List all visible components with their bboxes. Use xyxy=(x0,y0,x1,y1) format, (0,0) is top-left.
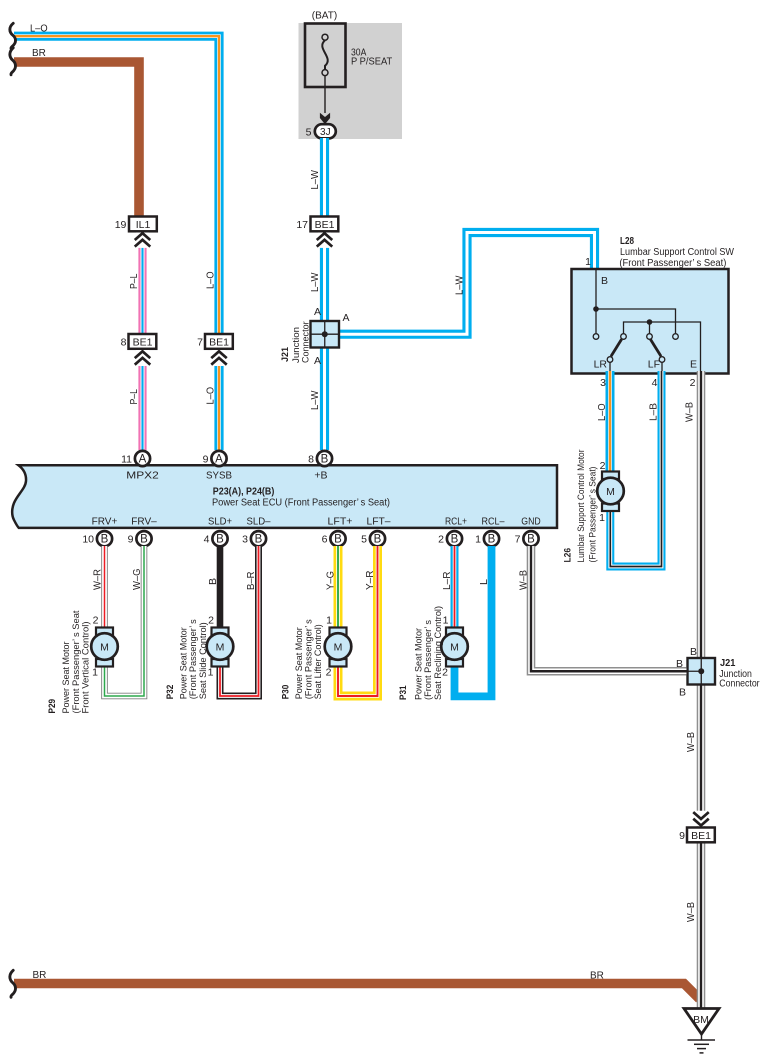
chevron below BE1-8 xyxy=(135,350,151,366)
svg-text:B: B xyxy=(374,534,382,546)
label W-G xyxy=(132,568,143,590)
fuse block gray background xyxy=(299,23,403,139)
label L-R xyxy=(442,572,453,591)
labels LR LF E xyxy=(594,359,697,371)
svg-text:A: A xyxy=(314,306,321,318)
label W-B on GND wire xyxy=(519,570,530,590)
svg-text:Seat Lifter Control): Seat Lifter Control) xyxy=(313,624,324,699)
svg-text:2: 2 xyxy=(600,460,606,472)
svg-text:L–O: L–O xyxy=(597,403,608,421)
svg-text:Front Vertical Control): Front Vertical Control) xyxy=(81,622,92,714)
svg-text:BE1: BE1 xyxy=(315,219,335,231)
ECU bottom pin names xyxy=(92,516,541,528)
pin 9 B FRV- xyxy=(128,531,152,546)
svg-text:L–W: L–W xyxy=(310,169,321,189)
svg-text:P–L: P–L xyxy=(129,389,140,405)
switch pivots and pin stubs xyxy=(607,357,665,373)
label L-O upper xyxy=(206,271,217,289)
wire Y-R LFT- looping to motor P30 xyxy=(338,546,378,696)
svg-text:L–O: L–O xyxy=(30,24,48,35)
label BR bottom left xyxy=(33,970,47,981)
svg-text:L–R: L–R xyxy=(442,572,453,591)
label L-W below BE1-17 xyxy=(310,272,321,292)
svg-text:Seat Reclining Control): Seat Reclining Control) xyxy=(433,606,444,700)
label P30 Power Seat Motor vertical xyxy=(281,619,325,699)
svg-text:B: B xyxy=(216,534,224,546)
label W-R xyxy=(93,569,104,590)
ECU top pin names xyxy=(126,470,327,482)
wire Y-G LFT+ to motor P30 xyxy=(334,546,343,628)
pin 5 B LFT- xyxy=(361,531,385,546)
svg-text:L–O: L–O xyxy=(206,387,217,405)
label L26 Lumbar Support Control Motor vertical xyxy=(563,450,599,563)
label pin 2 of P31 xyxy=(442,667,448,679)
svg-text:7: 7 xyxy=(515,534,521,546)
svg-text:+B: +B xyxy=(314,470,327,482)
L28 internal wiring xyxy=(593,270,700,373)
svg-text:5: 5 xyxy=(361,534,367,546)
svg-text:A: A xyxy=(314,355,321,367)
wire BR bottom horizontal xyxy=(14,984,700,1000)
svg-text:A: A xyxy=(139,453,147,465)
svg-text:2: 2 xyxy=(93,615,99,627)
svg-text:1: 1 xyxy=(92,667,98,679)
pin 8 B +B xyxy=(308,451,332,466)
wire BR top horizontal to IL1 xyxy=(14,62,139,216)
wire P-L from IL1 to MPX2 pin xyxy=(138,231,146,450)
svg-text:L–W: L–W xyxy=(310,272,321,292)
svg-text:BE1: BE1 xyxy=(691,830,711,842)
wire L-R RCL+ to motor P31 xyxy=(451,546,459,628)
svg-text:B: B xyxy=(321,453,329,465)
label pin 2 of P29 xyxy=(93,615,99,627)
svg-text:LFT+: LFT+ xyxy=(328,516,353,528)
svg-text:Lumbar Support Control Motor: Lumbar Support Control Motor xyxy=(576,450,587,563)
chevron below BE1-17 xyxy=(317,233,333,248)
svg-text:Y–G: Y–G xyxy=(325,571,336,590)
label pin 1 of P32 xyxy=(208,667,214,679)
svg-text:8: 8 xyxy=(308,454,314,466)
svg-text:W–G: W–G xyxy=(132,568,143,590)
svg-text:B–R: B–R xyxy=(246,572,257,591)
svg-text:17: 17 xyxy=(296,219,308,231)
label A right of J21 xyxy=(343,312,350,324)
svg-text:P32: P32 xyxy=(165,685,176,700)
svg-text:M: M xyxy=(334,642,343,654)
label P-L upper xyxy=(129,273,140,289)
motor L26 xyxy=(597,472,624,512)
svg-text:2: 2 xyxy=(326,667,332,679)
svg-text:M: M xyxy=(450,642,459,654)
svg-text:9: 9 xyxy=(128,534,134,546)
label B-R xyxy=(246,572,257,591)
wire L RCL- looping to motor P31 xyxy=(455,546,492,696)
label L-B xyxy=(649,403,660,421)
svg-text:B: B xyxy=(208,578,219,585)
svg-text:L28: L28 xyxy=(620,236,634,247)
label W-B lower right xyxy=(686,902,697,922)
svg-text:GND: GND xyxy=(521,516,541,528)
svg-text:SLD–: SLD– xyxy=(247,516,271,528)
switch L28 box xyxy=(572,269,729,374)
label B below J21-B xyxy=(679,687,686,699)
wire B-R SLD- looping to motor P32 xyxy=(220,546,259,696)
svg-text:P30: P30 xyxy=(281,685,292,700)
svg-text:19: 19 xyxy=(115,219,127,231)
motor P29 xyxy=(91,628,118,667)
chevron below BE1-7 xyxy=(211,350,227,366)
svg-text:1: 1 xyxy=(475,534,481,546)
label A below J21 xyxy=(314,355,321,367)
wire W-R FRV+ to motor P29 xyxy=(101,546,108,628)
label L-O xyxy=(597,403,608,421)
svg-text:L–W: L–W xyxy=(310,390,321,410)
label W-B mid right xyxy=(686,732,697,752)
svg-text:Connector: Connector xyxy=(719,679,760,690)
wire W-B from L28 pin E down to BM ground xyxy=(697,371,706,1009)
connector BE1 pin 7 xyxy=(197,334,233,349)
svg-text:9: 9 xyxy=(203,454,209,466)
L28 title xyxy=(619,236,734,269)
wire W-B GND to J21-B xyxy=(531,546,687,671)
connector BE1 pin 8 xyxy=(121,334,157,349)
junction connector J21 (A) xyxy=(311,321,340,348)
pin 2 B RCL+ xyxy=(438,531,462,546)
svg-text:2: 2 xyxy=(690,377,696,389)
svg-text:M: M xyxy=(100,642,109,654)
svg-text:4: 4 xyxy=(652,377,658,389)
svg-text:Y–R: Y–R xyxy=(365,571,376,591)
label pin 2 of P30 xyxy=(326,667,332,679)
svg-text:P–L: P–L xyxy=(129,273,140,289)
label P29 Power Seat Motor vertical xyxy=(47,610,91,713)
svg-text:M: M xyxy=(216,642,225,654)
svg-text:4: 4 xyxy=(204,534,210,546)
label L-O xyxy=(30,24,48,35)
pin 9 A SYSB xyxy=(203,451,227,466)
svg-text:A: A xyxy=(215,453,223,465)
svg-text:L26: L26 xyxy=(563,548,574,563)
svg-text:J21: J21 xyxy=(720,658,736,669)
label L xyxy=(479,579,490,585)
pin 11 A MPX2 xyxy=(121,451,150,466)
svg-text:B: B xyxy=(601,275,608,287)
svg-text:J21: J21 xyxy=(280,346,291,362)
break symbol on L-O xyxy=(10,23,16,48)
svg-text:B: B xyxy=(334,534,342,546)
svg-text:B: B xyxy=(140,534,148,546)
svg-text:Seat Slide Control): Seat Slide Control) xyxy=(198,622,209,699)
svg-text:7: 7 xyxy=(197,337,203,349)
svg-text:L: L xyxy=(479,579,490,585)
label B above J21-B xyxy=(690,646,697,658)
svg-text:11: 11 xyxy=(121,454,132,466)
svg-text:P P/SEAT: P P/SEAT xyxy=(351,57,392,68)
label J21 Junction Connector vertical xyxy=(280,321,312,363)
motor P30 xyxy=(325,628,352,667)
svg-text:BR: BR xyxy=(590,971,604,982)
label B left of J21-B xyxy=(676,658,683,670)
pin 10 B FRV+ xyxy=(82,531,112,546)
ECU P23/P24 box xyxy=(12,465,557,528)
svg-text:6: 6 xyxy=(322,534,328,546)
label L-W above BE1 xyxy=(310,169,321,189)
svg-text:(BAT): (BAT) xyxy=(312,11,337,22)
svg-text:BR: BR xyxy=(33,970,47,981)
svg-text:5: 5 xyxy=(306,127,312,139)
pin numbers 3 4 2 under L28 xyxy=(600,377,696,389)
svg-text:Power Seat ECU (Front Passenge: Power Seat ECU (Front Passenger’ s Seat) xyxy=(212,498,390,509)
svg-text:1: 1 xyxy=(326,615,332,627)
svg-text:FRV–: FRV– xyxy=(131,516,157,528)
wire W-G FRV- looping to motor P29 xyxy=(105,546,145,696)
svg-text:MPX2: MPX2 xyxy=(126,470,159,482)
motor P31 xyxy=(441,628,468,667)
svg-text:LFT–: LFT– xyxy=(367,516,391,528)
svg-text:SLD+: SLD+ xyxy=(208,516,232,528)
svg-text:RCL+: RCL+ xyxy=(445,516,467,528)
wire fuse to 3J with arrow xyxy=(320,76,330,124)
svg-text:L–W: L–W xyxy=(455,275,466,295)
label (BAT) xyxy=(312,11,337,22)
label pin 1 of L26 xyxy=(599,512,605,524)
label BR xyxy=(32,48,46,59)
svg-text:B: B xyxy=(679,687,686,699)
svg-text:E: E xyxy=(690,359,697,371)
svg-text:3J: 3J xyxy=(320,127,331,138)
svg-text:W–B: W–B xyxy=(519,570,530,590)
svg-text:RCL–: RCL– xyxy=(482,516,505,528)
wire L-W from 3J to +B pin xyxy=(320,138,329,450)
pin 4 B SLD+ xyxy=(204,531,228,546)
label B xyxy=(208,578,219,585)
svg-text:B: B xyxy=(255,534,263,546)
wire L-O top horizontal to SYSB xyxy=(14,36,219,450)
motor P32 xyxy=(207,628,234,667)
label pin 2 of P32 xyxy=(208,615,214,627)
svg-text:LF: LF xyxy=(648,359,660,371)
svg-text:B: B xyxy=(690,646,697,658)
svg-text:3: 3 xyxy=(242,534,248,546)
svg-text:W–R: W–R xyxy=(93,569,104,590)
pin 6 B LFT+ xyxy=(322,531,346,546)
label Y-R xyxy=(365,571,376,591)
svg-text:A: A xyxy=(343,312,350,324)
label P31 Power Seat Motor vertical xyxy=(398,606,444,700)
svg-text:L–B: L–B xyxy=(649,403,660,421)
wire L-O from L28 pin 3 to motor L26 xyxy=(606,371,615,472)
svg-text:IL1: IL1 xyxy=(136,219,151,231)
label A above J21 xyxy=(314,306,321,318)
svg-text:W–B: W–B xyxy=(685,402,696,422)
svg-text:BE1: BE1 xyxy=(133,337,153,349)
pin 1 B RCL- xyxy=(475,531,499,546)
svg-text:FRV+: FRV+ xyxy=(92,516,118,528)
svg-text:(Front Passenger’ s Seat): (Front Passenger’ s Seat) xyxy=(619,258,726,269)
label P32 Power Seat Motor vertical xyxy=(165,619,209,699)
svg-text:LR: LR xyxy=(594,359,608,371)
svg-text:BM: BM xyxy=(693,1014,709,1026)
label B inside L28 xyxy=(601,275,608,287)
label pin 2 of L26 xyxy=(600,460,606,472)
svg-text:Lumbar Support Control SW: Lumbar Support Control SW xyxy=(620,247,734,258)
svg-text:B: B xyxy=(101,534,109,546)
switch contacts L28 xyxy=(593,334,678,340)
svg-text:P31: P31 xyxy=(398,685,409,700)
ECU title xyxy=(212,486,390,508)
label pin 1 of L28 xyxy=(585,256,591,268)
svg-text:P29: P29 xyxy=(47,699,58,714)
connector BE1 pin 17 xyxy=(296,217,338,232)
svg-text:1: 1 xyxy=(599,512,605,524)
label BR bottom right xyxy=(590,971,604,982)
svg-text:Connector: Connector xyxy=(301,321,312,363)
svg-text:W–B: W–B xyxy=(686,902,697,922)
label P-L lower xyxy=(129,389,140,405)
switch blade LR xyxy=(611,339,622,356)
label W-B upper right xyxy=(685,402,696,422)
svg-text:SYSB: SYSB xyxy=(206,470,232,482)
wire L-B from L28 pin 4 looping to motor L26 xyxy=(610,371,661,567)
fuse 30A P P/SEAT xyxy=(305,24,346,88)
svg-text:1: 1 xyxy=(585,256,591,268)
svg-text:(Front Passenger’ s Seat): (Front Passenger’ s Seat) xyxy=(588,467,599,563)
pin 5 label xyxy=(306,127,312,139)
switch blade LF xyxy=(650,339,661,356)
svg-text:B: B xyxy=(488,534,496,546)
wire B SLD+ to motor P32 xyxy=(217,546,224,628)
label L-O lower xyxy=(206,387,217,405)
connector IL1 pin 19 xyxy=(115,217,157,232)
junction connector J21 (B) xyxy=(688,658,716,685)
ground BM xyxy=(684,1009,719,1053)
connector BE1 pin 9 xyxy=(679,828,715,843)
chevron below IL1 xyxy=(135,233,151,248)
svg-text:9: 9 xyxy=(679,830,685,842)
pin 3 B SLD- xyxy=(242,531,266,546)
svg-text:BR: BR xyxy=(32,48,46,59)
label pin 1 of P30 xyxy=(326,615,332,627)
label 30A P P/SEAT xyxy=(351,48,392,68)
label L-W on branch xyxy=(455,275,466,295)
connector 3J xyxy=(315,124,336,138)
label pin 1 of P31 xyxy=(443,615,449,627)
label pin 1 of P29 xyxy=(92,667,98,679)
label J21 Junction Connector right xyxy=(719,658,760,690)
break symbol on BR xyxy=(10,48,16,75)
svg-text:BE1: BE1 xyxy=(209,337,229,349)
wire L-W branch J21 to L28 pin 1 xyxy=(339,233,595,335)
break symbol on bottom BR xyxy=(10,970,16,997)
svg-text:W–B: W–B xyxy=(686,732,697,752)
chevron above BE1-9 xyxy=(693,811,709,827)
svg-text:B: B xyxy=(451,534,459,546)
svg-text:M: M xyxy=(606,486,615,498)
svg-text:P23(A), P24(B): P23(A), P24(B) xyxy=(213,486,274,497)
label L-W below J21 xyxy=(310,390,321,410)
pin 7 B GND xyxy=(515,531,539,546)
label Y-G xyxy=(325,571,336,590)
svg-text:B: B xyxy=(527,534,535,546)
svg-text:2: 2 xyxy=(438,534,444,546)
svg-text:10: 10 xyxy=(82,534,94,546)
svg-text:8: 8 xyxy=(121,337,127,349)
svg-text:3: 3 xyxy=(600,377,606,389)
svg-text:L–O: L–O xyxy=(206,271,217,289)
